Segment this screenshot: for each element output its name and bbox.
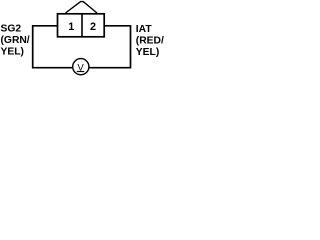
svg-text:YEL): YEL) xyxy=(136,47,159,58)
wire SG2: pin1 left, down, to voltmeter xyxy=(33,26,72,68)
svg-text:SG2: SG2 xyxy=(1,23,22,34)
cavity divider xyxy=(81,14,83,37)
wire IAT: pin2 right, down, to voltmeter xyxy=(90,26,131,68)
net label SG2 (GRN/YEL) xyxy=(1,23,30,57)
svg-text:YEL): YEL) xyxy=(1,46,24,57)
svg-text:2: 2 xyxy=(90,21,96,33)
net label IAT (RED/YEL) xyxy=(136,24,164,58)
connector body (2-pin) xyxy=(58,14,105,37)
svg-text:IAT: IAT xyxy=(136,24,153,35)
svg-text:(GRN/: (GRN/ xyxy=(1,35,30,46)
svg-text:(RED/: (RED/ xyxy=(136,35,164,46)
voltmeter underline xyxy=(77,71,84,73)
voltmeter V1 circle xyxy=(73,59,89,75)
svg-text:1: 1 xyxy=(68,21,74,33)
connector lock tab (triangle) xyxy=(66,2,98,13)
